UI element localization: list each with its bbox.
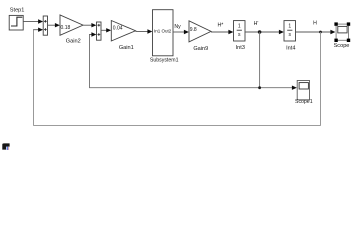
- wire into Sum1 bottom input: [33, 29, 39, 31]
- integrator Int4: [284, 21, 296, 41]
- wire Gain1 to Subsystem1: [136, 31, 149, 33]
- svg-text:In1 Out2: In1 Out2: [154, 28, 172, 33]
- arrowhead into Sum2 bottom input: [91, 32, 96, 36]
- sum block Sum2: [97, 22, 102, 40]
- arrowhead into Int4: [279, 30, 284, 34]
- svg-text:1: 1: [238, 24, 241, 30]
- svg-text:Scope1: Scope1: [295, 99, 313, 105]
- svg-text:H*: H*: [218, 22, 224, 28]
- arrowhead into Gain2: [55, 23, 60, 27]
- integrator Int3: [234, 21, 246, 41]
- arrowhead into Gain1: [106, 28, 111, 32]
- junction node after Int3: [258, 30, 262, 34]
- svg-text:Gain9: Gain9: [193, 46, 208, 52]
- step source Step1: [9, 15, 23, 30]
- wire Sum2 to Gain1: [101, 29, 107, 31]
- wire Int3 to Int4: [245, 31, 280, 33]
- arrowhead into Int3: [228, 30, 233, 34]
- arrowhead into Sum2 top input: [91, 23, 96, 27]
- wire H' branch down: [259, 32, 261, 88]
- arrowhead into Sum1 top input: [38, 19, 43, 23]
- svg-text:0.04: 0.04: [113, 26, 123, 32]
- svg-text:Gain1: Gain1: [119, 45, 134, 51]
- scope block Scope1: [297, 81, 309, 100]
- wire H feedback bottom run: [34, 125, 321, 127]
- svg-text:H: H: [313, 20, 317, 26]
- wire H feedback up left side: [33, 30, 35, 126]
- junction node on Scope1 line: [258, 86, 261, 89]
- gain Gain2: [60, 15, 83, 35]
- svg-text:1: 1: [288, 24, 291, 30]
- svg-text:Ny: Ny: [174, 24, 181, 30]
- scope block Scope (selected): [334, 22, 350, 42]
- wire Gain2 to Sum2: [83, 24, 92, 26]
- arrowhead into Subsystem1: [147, 29, 152, 33]
- arrowhead into Scope1: [292, 86, 297, 90]
- gain Gain1: [111, 21, 135, 42]
- arrowhead into Gain9: [184, 30, 189, 34]
- svg-text:Step1: Step1: [10, 8, 25, 14]
- svg-text:0.18: 0.18: [61, 25, 71, 31]
- selection handles: [334, 22, 337, 25]
- junction node after Int4: [319, 31, 322, 34]
- gain Gain9: [189, 21, 211, 42]
- wire Int4 to Scope: [296, 31, 331, 33]
- sum block Sum1: [43, 16, 47, 35]
- svg-text:Scope: Scope: [334, 43, 350, 49]
- wire Subsystem1 to Gain9: [173, 31, 185, 33]
- wire H' horizontal run to Sum2 feedback and Scope1: [89, 87, 292, 89]
- svg-text:Int4: Int4: [286, 45, 295, 51]
- wire Sum1 to Gain2: [48, 24, 56, 26]
- arrowhead into Sum1 bottom input: [38, 28, 43, 32]
- cut-off caption glyph bottom left: [2, 143, 9, 150]
- svg-text:Subsystem1: Subsystem1: [150, 58, 179, 64]
- subsystem block Subsystem1: [153, 10, 174, 56]
- wire into Sum2 bottom input: [89, 34, 92, 36]
- wire up to Sum2 bottom input: [89, 35, 91, 88]
- svg-text:Gain2: Gain2: [66, 38, 81, 44]
- wire H feedback down: [320, 32, 322, 126]
- svg-text:H': H': [254, 21, 259, 27]
- svg-text:Int3: Int3: [236, 45, 245, 51]
- svg-text:9.8: 9.8: [190, 27, 197, 33]
- wire Gain9 to Int3: [211, 31, 229, 33]
- wire Step1 to Sum1: [23, 21, 39, 23]
- arrowhead into Scope: [330, 30, 335, 34]
